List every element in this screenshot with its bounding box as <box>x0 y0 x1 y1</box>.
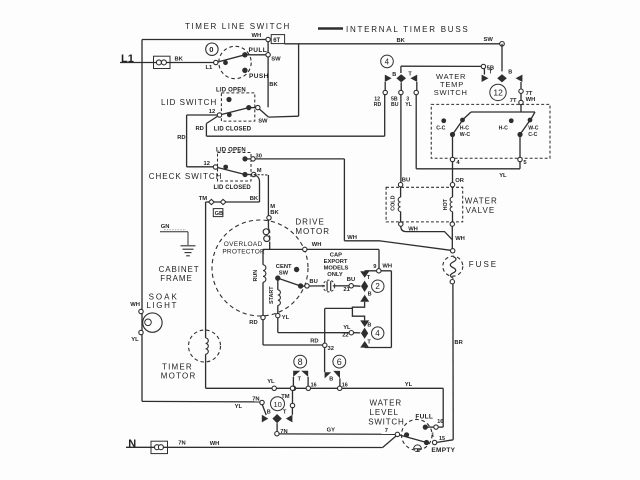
svg-text:CENT: CENT <box>276 264 292 270</box>
svg-text:YL: YL <box>499 173 507 179</box>
svg-text:PULL: PULL <box>249 47 268 54</box>
svg-text:OR: OR <box>455 178 465 184</box>
svg-text:7T: 7T <box>510 98 517 104</box>
svg-text:CAP: CAP <box>330 252 342 258</box>
svg-text:7N: 7N <box>178 441 185 447</box>
svg-text:FUSE: FUSE <box>469 260 498 269</box>
svg-text:EMPTY: EMPTY <box>431 447 455 454</box>
svg-text:4: 4 <box>375 329 380 338</box>
svg-text:16: 16 <box>311 382 317 388</box>
svg-text:8: 8 <box>298 357 303 367</box>
svg-text:BK: BK <box>270 210 279 216</box>
svg-text:1: 1 <box>431 432 434 438</box>
svg-text:B: B <box>267 410 271 416</box>
svg-text:LID CLOSED: LID CLOSED <box>214 185 252 191</box>
svg-text:WH: WH <box>210 441 220 447</box>
svg-text:BR: BR <box>454 340 463 346</box>
svg-text:WH: WH <box>252 33 262 39</box>
svg-text:WH: WH <box>408 226 418 232</box>
svg-text:W-C: W-C <box>460 132 471 138</box>
svg-text:6: 6 <box>337 357 342 367</box>
svg-text:WH: WH <box>130 302 140 308</box>
svg-text:7: 7 <box>385 428 388 434</box>
svg-text:SW: SW <box>258 119 268 125</box>
svg-text:LEVEL: LEVEL <box>370 408 399 417</box>
svg-text:22: 22 <box>342 332 348 338</box>
svg-text:6T: 6T <box>273 38 280 44</box>
svg-text:RD: RD <box>177 135 185 141</box>
svg-text:YL: YL <box>267 379 275 385</box>
svg-text:EXPORT: EXPORT <box>324 259 348 265</box>
svg-text:H-C: H-C <box>499 126 508 132</box>
svg-text:BU: BU <box>402 178 410 184</box>
svg-text:COLD: COLD <box>391 195 397 210</box>
svg-text:GN: GN <box>161 224 170 230</box>
svg-text:YL: YL <box>405 102 412 108</box>
svg-text:32: 32 <box>328 346 334 352</box>
svg-text:WATER: WATER <box>465 197 498 206</box>
svg-text:BU: BU <box>309 279 317 285</box>
svg-text:OVERLOAD: OVERLOAD <box>224 241 263 248</box>
svg-text:RUN: RUN <box>253 270 259 282</box>
svg-text:BU: BU <box>391 102 399 108</box>
svg-text:START: START <box>269 286 275 304</box>
svg-text:WATER: WATER <box>370 399 403 408</box>
svg-text:VALVE: VALVE <box>466 206 496 215</box>
svg-text:GY: GY <box>327 427 336 433</box>
svg-text:YL: YL <box>235 404 243 410</box>
svg-text:WH: WH <box>347 235 357 241</box>
svg-text:WH: WH <box>526 97 536 103</box>
svg-text:YL: YL <box>131 337 139 343</box>
svg-text:C-C: C-C <box>528 132 537 138</box>
svg-text:21: 21 <box>343 287 350 293</box>
svg-text:MODELS: MODELS <box>324 265 349 271</box>
svg-text:ONLY: ONLY <box>327 272 343 278</box>
svg-text:CABINET: CABINET <box>159 265 200 274</box>
svg-text:RD: RD <box>196 126 204 132</box>
svg-text:MOTOR: MOTOR <box>161 372 197 381</box>
svg-text:RD: RD <box>249 320 257 326</box>
svg-text:SWITCH: SWITCH <box>368 417 404 426</box>
svg-text:16: 16 <box>342 382 348 388</box>
svg-text:7T: 7T <box>526 91 533 97</box>
svg-text:M: M <box>270 204 275 210</box>
svg-text:TM: TM <box>281 394 290 400</box>
svg-text:HOT: HOT <box>443 198 449 210</box>
svg-text:0: 0 <box>209 45 213 54</box>
svg-text:12: 12 <box>493 88 503 98</box>
svg-text:TIMER LINE SWITCH: TIMER LINE SWITCH <box>185 22 291 31</box>
svg-text:FRAME: FRAME <box>160 274 193 283</box>
svg-text:SW: SW <box>279 271 289 277</box>
svg-text:LID OPEN: LID OPEN <box>216 88 246 94</box>
svg-text:10: 10 <box>274 400 282 409</box>
svg-text:BU: BU <box>347 277 355 283</box>
svg-text:LIGHT: LIGHT <box>146 301 178 310</box>
svg-text:YL: YL <box>405 382 413 388</box>
svg-text:WH: WH <box>455 236 465 242</box>
svg-text:DRIVE: DRIVE <box>295 217 324 226</box>
svg-text:W-C: W-C <box>528 126 539 132</box>
svg-text:B: B <box>367 322 371 328</box>
svg-text:TM: TM <box>199 196 208 202</box>
svg-text:B: B <box>508 70 512 76</box>
svg-text:RD: RD <box>310 339 318 345</box>
svg-text:16: 16 <box>437 419 443 425</box>
svg-text:2: 2 <box>375 282 380 291</box>
svg-text:L1: L1 <box>121 53 134 65</box>
svg-text:WH: WH <box>312 242 322 248</box>
svg-text:7N: 7N <box>252 397 259 403</box>
svg-text:LID SWITCH: LID SWITCH <box>161 98 217 107</box>
svg-text:LID OPEN: LID OPEN <box>216 148 246 154</box>
svg-text:PUSH: PUSH <box>249 73 269 80</box>
svg-text:GB: GB <box>215 211 223 217</box>
svg-text:B: B <box>368 291 372 297</box>
svg-text:30: 30 <box>256 154 262 160</box>
svg-text:BK: BK <box>269 82 278 88</box>
svg-text:M: M <box>257 168 262 174</box>
svg-text:B: B <box>329 376 333 382</box>
svg-text:BK: BK <box>250 196 259 202</box>
svg-text:BK: BK <box>397 38 406 44</box>
svg-text:4: 4 <box>385 57 390 66</box>
svg-text:SW: SW <box>271 56 281 62</box>
svg-text:L1: L1 <box>206 65 214 71</box>
svg-text:RD: RD <box>374 102 382 108</box>
svg-text:BK: BK <box>175 57 184 63</box>
svg-text:12: 12 <box>209 109 215 115</box>
svg-text:YL: YL <box>282 315 290 321</box>
svg-text:LID CLOSED: LID CLOSED <box>214 127 252 133</box>
svg-text:FULL: FULL <box>415 413 433 420</box>
svg-text:SWITCH: SWITCH <box>434 88 468 97</box>
svg-text:YL: YL <box>343 325 351 331</box>
svg-text:SW: SW <box>484 37 494 43</box>
svg-text:TIMER: TIMER <box>162 363 193 372</box>
svg-text:PROTECTOR: PROTECTOR <box>222 248 265 255</box>
svg-text:H-C: H-C <box>460 126 469 132</box>
svg-text:C-C: C-C <box>436 126 445 132</box>
svg-text:INTERNAL TIMER BUSS: INTERNAL TIMER BUSS <box>346 25 470 34</box>
svg-text:B: B <box>392 72 396 78</box>
svg-text:12: 12 <box>204 161 210 167</box>
svg-text:N: N <box>128 438 136 450</box>
svg-text:MOTOR: MOTOR <box>295 227 330 236</box>
svg-text:WH: WH <box>382 263 392 269</box>
svg-text:CHECK SWITCH: CHECK SWITCH <box>149 172 223 181</box>
